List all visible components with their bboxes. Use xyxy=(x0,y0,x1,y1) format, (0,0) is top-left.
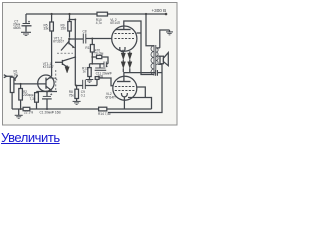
capacitor C13 plates xyxy=(156,70,163,76)
resistor R13 horizontal xyxy=(92,55,108,64)
svg-text:22 1%: 22 1% xyxy=(24,110,33,114)
wire wiper y83.9 xyxy=(14,83,46,85)
resistor R9 xyxy=(68,14,71,38)
wire grid route xyxy=(99,78,113,86)
resistor R3 in bus xyxy=(23,107,30,110)
anode lead VL2 top xyxy=(124,73,155,81)
resistor R4 xyxy=(35,92,39,110)
screen stub to x141 xyxy=(137,32,141,34)
transistor VT2 body xyxy=(46,69,57,92)
tube VL2 output pentode xyxy=(113,76,137,100)
svg-text:150: 150 xyxy=(61,27,67,31)
resistor R14 xyxy=(88,64,91,80)
cathode upper tube xyxy=(120,47,125,52)
svg-text:С1 20мкФ 16В: С1 20мкФ 16В xyxy=(40,111,61,115)
link Увеличить xyxy=(1,130,60,145)
transistor VT2 circle xyxy=(38,75,54,91)
node dot 92.3,38.5 xyxy=(91,38,93,40)
ground top right xyxy=(166,30,173,35)
resistor R5 xyxy=(50,14,54,69)
node bus dot R9 xyxy=(68,13,70,15)
capacitor C1 xyxy=(42,92,52,110)
wire grid upper tube xyxy=(92,38,112,40)
capacitor C9 xyxy=(83,80,97,89)
capacitor C7 xyxy=(22,21,32,32)
secondary top lead xyxy=(157,47,160,49)
wire x146 down to transformer xyxy=(146,14,154,46)
dashed line horizontal xyxy=(57,52,73,54)
node dot 47,91.5 xyxy=(46,91,48,93)
resistor R2 xyxy=(19,84,23,109)
grid dashes VL2 xyxy=(115,86,135,88)
svg-text:R11: R11 xyxy=(85,46,91,50)
node dot 92.3,63.8 xyxy=(91,63,93,65)
anode bar VL2 xyxy=(117,81,131,83)
heater arrow A1 xyxy=(65,66,69,74)
svg-text:33к: 33к xyxy=(44,27,50,31)
svg-text:0,1: 0,1 xyxy=(81,94,86,98)
transformer secondary winding xyxy=(156,48,158,65)
heater arrows between tubes xyxy=(121,51,132,72)
node dot 69.5,19.5 xyxy=(69,19,71,21)
ground R8 xyxy=(73,101,81,104)
input arrow xyxy=(4,75,7,78)
svg-text:4,7к: 4,7к xyxy=(96,21,102,25)
capacitor C8 xyxy=(83,34,92,44)
resistor R11 on rail xyxy=(90,39,94,64)
wire grid lower tube xyxy=(96,79,98,85)
dashed line vertical xyxy=(55,70,57,91)
svg-text:+300 В: +300 В xyxy=(152,8,167,13)
resistor R10 in bus xyxy=(97,12,108,16)
wire input xyxy=(7,76,13,77)
capacitor C11 electrolytic xyxy=(95,64,108,71)
svg-text:450В: 450В xyxy=(13,26,20,30)
node dot 76,85.5 xyxy=(75,85,77,87)
anode bar upper tube xyxy=(116,29,131,31)
secondary mid lead xyxy=(158,55,160,57)
ground xyxy=(21,32,31,35)
labels xyxy=(13,8,166,116)
transistor VT1.1 xyxy=(55,57,76,67)
node dot 21.8,83.9 xyxy=(20,83,22,85)
wire cathode net y91.5 xyxy=(37,91,58,93)
wire to C8 xyxy=(69,38,83,40)
svg-text:7,3к: 7,3к xyxy=(30,97,36,101)
terminal +300V dot xyxy=(165,13,168,16)
wire top bus xyxy=(26,13,166,15)
svg-text:6П14П: 6П14П xyxy=(106,95,117,99)
node dot 75.3,19.5 xyxy=(74,19,76,21)
wire coupling y85.5 xyxy=(76,85,83,87)
node bus dot R5 xyxy=(51,13,53,15)
svg-text:С8: С8 xyxy=(83,30,87,34)
speaker return wire xyxy=(108,64,162,113)
resistor R8 xyxy=(75,86,79,102)
transformer primary winding xyxy=(151,46,154,75)
cathode hook VL2 xyxy=(122,93,128,97)
wire bus drop to C7 xyxy=(25,14,27,23)
grid stopper box xyxy=(95,77,99,80)
tube VL1 upper pentode circle xyxy=(112,26,137,51)
node dot 47,109 xyxy=(46,108,48,110)
node dot 21.8,109 xyxy=(20,108,22,110)
svg-text:КТ3107: КТ3107 xyxy=(43,65,54,69)
capacitor C10 plates xyxy=(90,62,109,68)
ground mid xyxy=(86,80,94,83)
node dot 92.3,57 xyxy=(91,56,93,58)
ground riser top right xyxy=(160,30,170,48)
potentiometer R1 xyxy=(10,75,17,109)
ground bus bottom xyxy=(12,108,99,110)
transformer T1 core xyxy=(153,45,155,76)
wire loop y97.5 xyxy=(128,98,152,110)
svg-text:4 70 Ом: 4 70 Ом xyxy=(92,52,104,56)
svg-text:6П14П: 6П14П xyxy=(110,21,121,25)
node dot 69.3,39 xyxy=(68,38,70,40)
wire rail x75 xyxy=(74,20,76,86)
resistor R12 in bus xyxy=(99,107,107,111)
svg-text:75к: 75к xyxy=(69,94,75,98)
wire step to rail xyxy=(70,19,77,21)
node dot 146,14 xyxy=(145,13,147,15)
secondary bottom lead xyxy=(158,63,162,65)
svg-text:R14 7,5к: R14 7,5к xyxy=(98,112,111,116)
ground stub bottom left xyxy=(15,109,23,118)
wire anode upper tube loop xyxy=(124,21,154,75)
svg-text:КТ3107: КТ3107 xyxy=(53,40,64,44)
screen lead VL2 right xyxy=(137,87,146,98)
svg-text:16В: 16В xyxy=(98,75,104,79)
transistor VT1.2 xyxy=(61,40,75,51)
svg-text:1м: 1м xyxy=(14,72,18,76)
speaker BA1 xyxy=(160,53,168,66)
cathode lead VL2 xyxy=(123,97,125,109)
grid dashes upper tube xyxy=(115,33,135,35)
